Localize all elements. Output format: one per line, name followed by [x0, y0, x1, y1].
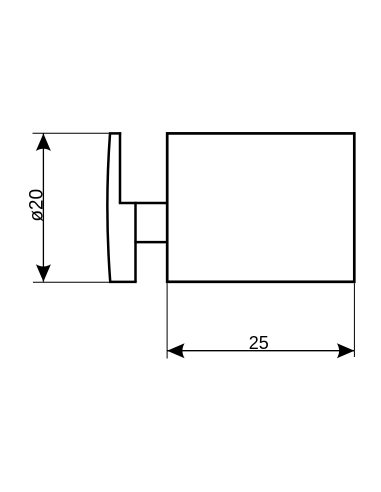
extension line below left (for 25): [166, 283, 168, 358]
extension line top left (for dia 20): [33, 132, 110, 134]
extension line bottom left (for dia 20): [33, 281, 110, 283]
arrowhead down: [36, 264, 51, 282]
horizontal dimension line: [167, 350, 354, 352]
back disc top edge: [109, 132, 121, 135]
svg-text:ø20: ø20: [27, 189, 48, 222]
vertical dimension line: [42, 134, 44, 282]
arrowhead up: [36, 134, 51, 152]
arrowhead left: [167, 343, 185, 358]
arrowhead right: [337, 343, 355, 358]
neck top line: [119, 202, 167, 205]
disc step vertical edge: [134, 202, 137, 282]
back disc curved left edge: [107, 134, 110, 282]
svg-text:25: 25: [249, 333, 269, 353]
back disc bottom edge: [109, 281, 137, 284]
knob body (large cylinder, side view rectangle): [167, 133, 354, 281]
extension line below right (for 25): [353, 283, 355, 357]
neck bottom line: [134, 241, 167, 244]
back disc right edge (upper): [119, 132, 122, 203]
